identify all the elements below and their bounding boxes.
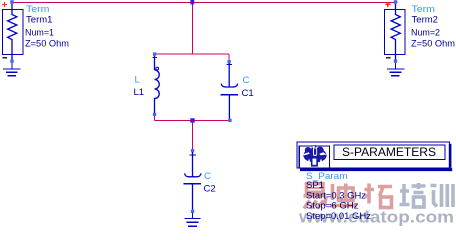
char yi	[307, 184, 324, 193]
svg-text:Z=50 Ohm: Z=50 Ohm	[411, 38, 455, 49]
svg-text:Term: Term	[412, 4, 436, 15]
gear icon	[303, 145, 326, 163]
capacitor C1	[221, 60, 254, 122]
svg-text:Num=2: Num=2	[411, 28, 440, 39]
body rectangle Term1	[3, 10, 24, 55]
capacitor C2	[184, 149, 216, 226]
svg-text:Term2: Term2	[412, 15, 439, 26]
shadow bottom	[300, 168, 452, 171]
pin node C1 top	[228, 60, 231, 63]
char pei	[400, 184, 410, 205]
svg-text:L1: L1	[134, 87, 145, 98]
svg-text:Z=50 Ohm: Z=50 Ohm	[25, 38, 69, 49]
minus sign Term1	[2, 57, 7, 59]
wire LC tank bottom	[155, 114, 232, 121]
char di	[330, 184, 357, 206]
char xun	[431, 186, 438, 207]
pin node Term1 top	[10, 0, 14, 4]
icon box	[299, 146, 329, 168]
watermark chinese characters (approximation)	[298, 183, 454, 226]
svg-text:C2: C2	[204, 184, 216, 195]
ground C2	[184, 213, 200, 226]
pin tick L1	[152, 57, 157, 59]
plates C2	[192, 152, 194, 177]
pin node C1 bottom	[228, 119, 231, 122]
resistor zigzag Term2	[391, 4, 400, 60]
wire LC tank top	[155, 54, 230, 61]
svg-text:C: C	[243, 75, 250, 86]
pin tick C2	[189, 154, 196, 156]
svg-text:L: L	[135, 75, 140, 86]
svg-text:C1: C1	[242, 88, 254, 99]
pin node Term2 top	[394, 0, 398, 4]
wire vertical from top rail to LC tank	[192, 3, 194, 55]
svg-text:www.edatop.com: www.edatop.com	[298, 208, 454, 226]
pin node C2 top	[191, 149, 194, 152]
pin node Term1 bottom	[10, 60, 13, 63]
wire junction to C2	[192, 121, 194, 151]
pin node Term2 bottom	[394, 60, 397, 63]
svg-text:Term1: Term1	[26, 15, 53, 26]
ground Term1	[3, 63, 21, 76]
title box	[334, 145, 445, 160]
minus sign Term2	[386, 57, 391, 59]
body rectangle Term2	[385, 10, 406, 55]
plus sign Term2	[385, 2, 390, 7]
pin node L1 bottom	[153, 113, 156, 116]
pin node L1 top	[153, 52, 156, 55]
svg-text:S-PARAMETERS: S-PARAMETERS	[342, 145, 436, 159]
pin node C2 bottom	[191, 210, 194, 213]
resistor zigzag Term1	[8, 4, 17, 60]
ground Term2	[387, 63, 405, 76]
coil L1	[154, 56, 156, 70]
inductor L1	[134, 52, 160, 116]
plus sign Term1	[2, 2, 7, 7]
junction top node	[190, 0, 194, 4]
char tuo	[365, 184, 375, 204]
S-PARAMETERS controller box	[297, 142, 452, 171]
term Term2	[385, 0, 456, 76]
junction bottom node	[190, 118, 194, 122]
svg-text:Num=1: Num=1	[25, 28, 54, 39]
svg-text:C: C	[204, 171, 211, 182]
wire top rail	[12, 2, 396, 4]
svg-text:Term: Term	[26, 4, 50, 15]
plates C1	[228, 63, 230, 87]
pin tick C1	[226, 64, 232, 66]
term Term1	[2, 0, 69, 76]
